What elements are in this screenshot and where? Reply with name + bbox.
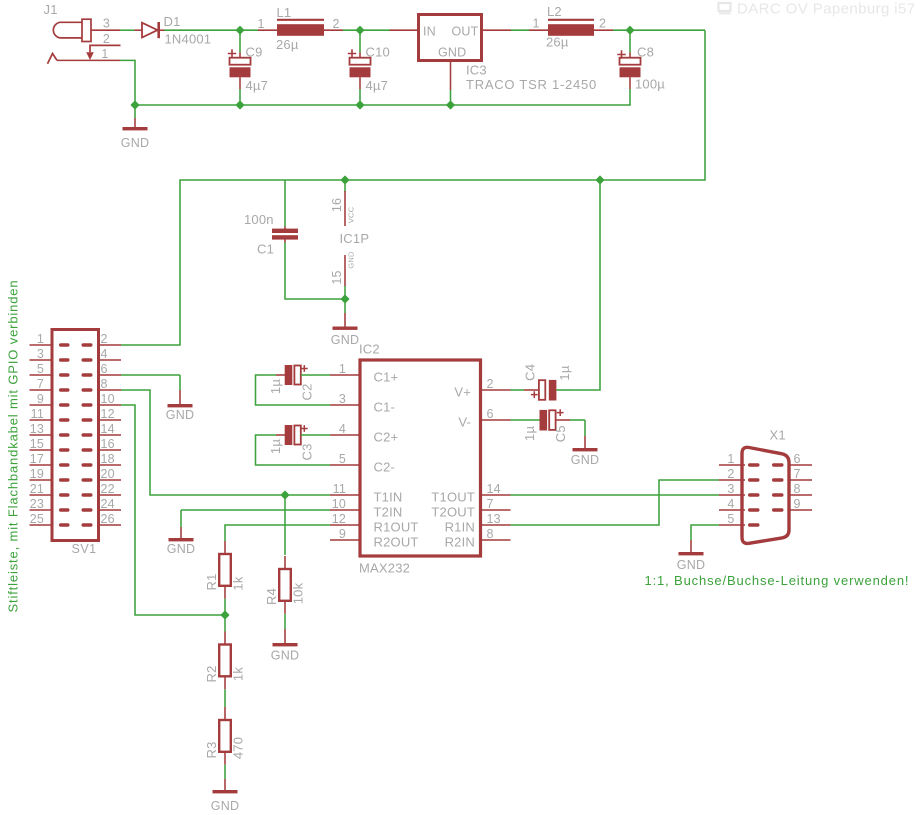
SV1 pin 23 — [30, 509, 53, 511]
IC2 pin 5 C2- — [330, 464, 360, 466]
svg-text:1k: 1k — [231, 667, 246, 681]
junction T1IN node at R4 branch — [280, 490, 289, 499]
SV1 pin 16 — [99, 449, 122, 451]
svg-text:C2: C2 — [300, 383, 315, 400]
svg-text:D1: D1 — [164, 14, 181, 29]
wire to ground symbol for C5 — [584, 420, 586, 436]
SV1 pin 13 — [30, 434, 53, 436]
svg-text:1: 1 — [533, 17, 540, 31]
wire SV1 pin10 to divider junction — [121, 405, 225, 615]
svg-text:C2+: C2+ — [374, 429, 399, 444]
svg-text:C2-: C2- — [374, 459, 396, 474]
svg-text:1:1, Buchse/Buchse-Leitung ver: 1:1, Buchse/Buchse-Leitung verwenden! — [645, 573, 910, 588]
connector X1 shell — [742, 447, 789, 543]
svg-text:10: 10 — [101, 392, 115, 406]
svg-text:2: 2 — [101, 332, 108, 346]
svg-text:4: 4 — [339, 422, 346, 436]
IC2 pin 12 R1OUT — [330, 524, 360, 526]
svg-text:25: 25 — [30, 512, 44, 526]
svg-text:GND: GND — [571, 453, 599, 467]
SV1 pin 20 — [99, 479, 122, 481]
capacitor C8 polarized — [620, 53, 641, 90]
SV1 pin 25 — [30, 524, 53, 526]
wire junction down to C8 — [629, 30, 631, 52]
svg-text:C9: C9 — [246, 45, 263, 60]
svg-text:IN: IN — [423, 25, 436, 39]
svg-text:19: 19 — [30, 467, 44, 481]
wire IC2 T1OUT to X1 pin3 — [511, 494, 720, 496]
IC2 pin 9 R2OUT — [330, 539, 360, 541]
ground symbol below R4 — [284, 629, 286, 643]
svg-text:18: 18 — [101, 452, 115, 466]
svg-text:5: 5 — [339, 452, 346, 466]
SV1 pin 18 — [99, 464, 122, 466]
wire SV1 pin6 to ground branch — [121, 374, 180, 376]
svg-text:1: 1 — [258, 17, 265, 31]
svg-text:8: 8 — [487, 527, 494, 541]
SV1 pin 15 — [30, 449, 53, 451]
wire 5V net from top corner to VCC rail and SV1 pin2 — [121, 30, 705, 345]
svg-text:1: 1 — [727, 452, 734, 466]
svg-text:GND: GND — [166, 408, 194, 422]
svg-text:T2IN: T2IN — [374, 504, 403, 519]
wire L1 pin2 to IC3 IN with C10 tap — [343, 29, 390, 31]
SV1 pin 21 — [30, 494, 53, 496]
IC3 pin OUT — [482, 29, 512, 31]
SV1 pin 6 — [99, 374, 122, 376]
svg-text:L1: L1 — [277, 5, 292, 20]
X1 pin 3 — [719, 494, 745, 496]
svg-text:R2IN: R2IN — [445, 534, 475, 549]
svg-text:X1: X1 — [770, 428, 786, 443]
svg-text:4: 4 — [101, 347, 108, 361]
svg-text:2: 2 — [103, 32, 110, 46]
wire IC2 R1IN to X1 pin2 — [511, 480, 720, 525]
wire junction to R2 top — [224, 615, 226, 632]
junction divider node R1 R2 — [220, 610, 229, 619]
capacitor C1 — [272, 227, 298, 243]
svg-text:1k: 1k — [231, 576, 246, 590]
wire SV1 pin8 to IC2 T1IN — [121, 390, 330, 495]
svg-text:T1IN: T1IN — [374, 489, 403, 504]
svg-text:100µ: 100µ — [635, 77, 665, 92]
SV1 pin 22 — [99, 494, 122, 496]
capacitor C4 polarized — [524, 380, 556, 401]
wire IC2 T2IN to ground — [181, 509, 330, 511]
IC2 pin 3 C1- — [330, 404, 360, 406]
capacitor C2 polarized — [276, 365, 301, 385]
C5 plus sign — [557, 409, 564, 416]
X1 pin 7 — [789, 479, 812, 481]
wire C9 to ground rail — [239, 89, 241, 105]
wire to ground symbol below input rail — [134, 105, 136, 118]
svg-text:IC3: IC3 — [466, 63, 487, 78]
svg-text:1: 1 — [37, 332, 44, 346]
power pins IC1P pin 15 GND — [344, 255, 346, 286]
SV1 pin 7 — [30, 389, 53, 391]
svg-text:1N4001: 1N4001 — [165, 32, 212, 47]
svg-text:GND: GND — [121, 136, 149, 150]
SV1 pin 11 — [30, 419, 53, 421]
svg-text:17: 17 — [30, 452, 44, 466]
connector J1 plug barrel — [53, 22, 83, 38]
wire to ground symbol for T2IN — [180, 510, 182, 527]
svg-text:100n: 100n — [244, 212, 274, 227]
wire junction down to C9 — [239, 30, 241, 52]
svg-text:26µ: 26µ — [276, 37, 299, 52]
junction at C8 top — [625, 26, 634, 35]
junction ground rail at C10 — [355, 100, 364, 109]
svg-text:C10: C10 — [366, 45, 390, 60]
svg-text:IC1P: IC1P — [340, 231, 370, 246]
svg-text:11: 11 — [333, 482, 346, 496]
junction ground rail at IC3 — [446, 100, 455, 109]
svg-text:22: 22 — [101, 482, 115, 496]
wire C5 to ground branch — [570, 419, 585, 421]
J1 pin 2 switched contact — [90, 45, 121, 52]
wire C4 branch down to C4 — [571, 180, 600, 390]
C9 plus sign — [228, 49, 236, 57]
ground symbol for SV1 pin 6 — [179, 390, 181, 404]
junction ground rail at C9 — [235, 100, 244, 109]
svg-text:R1: R1 — [204, 573, 219, 590]
wire IC2 V+ to C4 — [511, 389, 525, 391]
svg-text:7: 7 — [487, 497, 494, 511]
capacitor C3 polarized — [276, 425, 301, 445]
wire junction down to R4 — [284, 495, 286, 555]
svg-text:GND: GND — [211, 799, 239, 813]
capacitor C9 polarized — [230, 53, 251, 90]
wire IC3 GND to ground rail — [450, 90, 452, 105]
wire IC1P pin 15 to junction — [344, 286, 346, 299]
SV1 pin 12 — [99, 419, 122, 421]
IC2 pin 14 T1OUT — [481, 494, 511, 496]
svg-text:T2OUT: T2OUT — [431, 504, 475, 519]
svg-text:10k: 10k — [291, 582, 306, 604]
svg-text:1: 1 — [339, 362, 346, 376]
X1 pin 5 — [719, 524, 745, 526]
SV1 pin 4 — [99, 359, 122, 361]
svg-text:12: 12 — [332, 512, 346, 526]
wire to ground symbol below R3 — [224, 765, 226, 779]
wire to ground symbol for X1 pin5 — [690, 539, 692, 541]
svg-text:R4: R4 — [264, 588, 279, 605]
svg-text:C5: C5 — [553, 425, 568, 442]
svg-text:13: 13 — [487, 512, 501, 526]
C3 plus sign — [301, 425, 308, 432]
svg-text:3: 3 — [727, 482, 734, 496]
svg-text:21: 21 — [30, 482, 44, 496]
capacitor C10 polarized — [350, 53, 371, 90]
IC3 pin IN — [390, 29, 419, 31]
svg-text:14: 14 — [101, 422, 115, 436]
X1 pin 4 — [719, 509, 745, 511]
svg-text:SV1: SV1 — [72, 542, 97, 556]
svg-text:Stiftleiste, mit Flachbandkabe: Stiftleiste, mit Flachbandkabel mit GPIO… — [6, 280, 21, 613]
IC3 pin GND — [450, 61, 452, 91]
C10 plus sign — [348, 49, 356, 57]
svg-text:VCC: VCC — [347, 206, 356, 223]
svg-text:14: 14 — [487, 482, 501, 496]
svg-text:6: 6 — [487, 407, 494, 421]
wire IC3 OUT to L2 pin1 — [511, 29, 529, 31]
X1 pin 6 — [789, 464, 812, 466]
J1 pin 3 — [91, 29, 120, 31]
svg-text:V+: V+ — [454, 384, 471, 399]
svg-text:R2: R2 — [204, 665, 219, 682]
svg-text:C1: C1 — [257, 242, 274, 257]
X1 pin 2 — [719, 479, 745, 481]
svg-text:R3: R3 — [204, 741, 219, 758]
SV1 pin 1 — [30, 344, 53, 346]
wire junction down to C10 — [359, 30, 361, 52]
svg-text:R1IN: R1IN — [445, 519, 475, 534]
wire J1 pin3 to D1 anode — [120, 29, 135, 31]
svg-text:1: 1 — [101, 47, 108, 61]
svg-text:10: 10 — [332, 497, 346, 511]
svg-text:C3: C3 — [300, 443, 315, 460]
svg-text:3: 3 — [103, 17, 110, 31]
IC2 pin 11 T1IN — [330, 494, 360, 496]
wire J1 pin1 to ground rail — [120, 60, 135, 105]
resistor R2 — [219, 632, 231, 690]
junction at IC1P ground node — [340, 294, 349, 303]
voltage regulator IC3 box — [419, 15, 482, 61]
svg-text:2: 2 — [599, 17, 606, 31]
SV1 pin 10 — [99, 404, 122, 406]
svg-text:C8: C8 — [637, 45, 654, 60]
svg-text:V-: V- — [458, 414, 471, 429]
svg-text:DARC OV Papenburg i57: DARC OV Papenburg i57 — [737, 1, 916, 18]
svg-text:L2: L2 — [547, 4, 562, 19]
svg-text:7: 7 — [794, 467, 801, 481]
wire C4 to 5V branch — [556, 389, 571, 391]
wire to ground symbol below IC1P — [344, 299, 346, 313]
power pins IC1P pin 16 VCC — [344, 191, 346, 226]
svg-text:GND: GND — [331, 333, 359, 347]
SV1 pin 19 — [30, 479, 53, 481]
SV1 pin 2 — [99, 344, 122, 346]
svg-text:2: 2 — [727, 467, 734, 481]
wire VCC rail down to C1 — [284, 180, 286, 227]
svg-text:9: 9 — [794, 497, 801, 511]
svg-text:2: 2 — [487, 377, 494, 391]
svg-text:GND: GND — [271, 649, 299, 663]
ground symbol for T2IN — [180, 527, 182, 538]
svg-text:3: 3 — [339, 392, 346, 406]
J1 pin 1 — [57, 59, 120, 61]
IC2 pin 6 V- — [481, 419, 511, 421]
svg-text:1µ: 1µ — [268, 379, 283, 394]
svg-text:T1OUT: T1OUT — [431, 489, 475, 504]
svg-text:GND: GND — [438, 46, 466, 60]
IC2 pin 7 T2OUT — [481, 509, 511, 511]
svg-text:5: 5 — [37, 362, 44, 376]
svg-text:R1OUT: R1OUT — [374, 519, 419, 534]
ground symbol below IC1P — [344, 313, 346, 327]
IC2 pin 4 C2+ — [330, 434, 360, 436]
svg-text:15: 15 — [330, 270, 344, 284]
wire C3 loop to lower pin — [256, 435, 331, 465]
svg-text:4: 4 — [727, 497, 734, 511]
svg-text:26µ: 26µ — [546, 35, 569, 50]
svg-text:1µ: 1µ — [522, 426, 537, 441]
wire C2 loop to lower pin — [256, 375, 331, 405]
X1 pin 1 — [719, 464, 745, 466]
resistor R4 — [279, 556, 291, 614]
ground symbol below input rail — [134, 118, 136, 127]
junction at C9 top — [235, 26, 244, 35]
IC2 pin 10 T2IN — [330, 509, 360, 511]
svg-text:470: 470 — [231, 737, 246, 759]
svg-text:6: 6 — [101, 362, 108, 376]
wire VCC rail down to IC1P pin 16 — [344, 180, 346, 192]
C2 plus sign — [301, 365, 308, 372]
SV1 pin 8 — [99, 389, 122, 391]
svg-text:23: 23 — [30, 497, 44, 511]
svg-text:26: 26 — [101, 512, 115, 526]
svg-text:R2OUT: R2OUT — [374, 534, 419, 549]
svg-text:5: 5 — [727, 512, 734, 526]
resistor R3 — [219, 707, 231, 765]
wire D1 cathode to L1 pin1 with C9 tap — [165, 29, 259, 31]
svg-text:1µ: 1µ — [557, 365, 572, 380]
wire C2 to upper pin — [301, 374, 330, 376]
SV1 pin 24 — [99, 509, 122, 511]
wire C1 bottom to IC1P pin15 junction — [285, 243, 345, 300]
svg-text:20: 20 — [101, 467, 115, 481]
connector J1 sleeve — [82, 19, 91, 41]
ground symbol for C5 — [584, 436, 586, 448]
wire to ground symbol for SV1 pin 6 — [179, 375, 181, 390]
wire ground rail top section — [134, 104, 631, 106]
watermark logo icon — [719, 3, 731, 13]
svg-text:1µ: 1µ — [268, 439, 283, 454]
capacitor C5 polarized — [540, 410, 571, 431]
SV1 pin 9 — [30, 404, 53, 406]
svg-text:13: 13 — [30, 422, 44, 436]
svg-text:GND: GND — [677, 558, 705, 572]
SV1 pin 17 — [30, 464, 53, 466]
junction at C10 top — [355, 26, 364, 35]
svg-text:12: 12 — [101, 407, 115, 421]
svg-text:7: 7 — [37, 377, 44, 391]
wire R1 bottom to junction — [224, 599, 226, 615]
inductor L2 — [529, 20, 613, 36]
pin header SV1 box — [52, 330, 99, 541]
svg-text:4µ7: 4µ7 — [246, 78, 269, 93]
SV1 pin 26 — [99, 524, 122, 526]
SV1 pin 3 — [30, 359, 53, 361]
svg-text:11: 11 — [31, 407, 44, 421]
svg-text:6: 6 — [794, 452, 801, 466]
svg-text:16: 16 — [330, 198, 344, 212]
resistor R1 — [219, 541, 231, 599]
diode D1 — [135, 22, 165, 38]
X1 pin 8 — [789, 494, 812, 496]
IC2 pin 13 R1IN — [481, 524, 511, 526]
IC2 pin 1 C1+ — [330, 374, 360, 376]
SV1 pin 14 — [99, 434, 122, 436]
svg-text:9: 9 — [339, 527, 346, 541]
svg-text:C4: C4 — [523, 364, 538, 381]
wire C3 to upper pin — [301, 434, 330, 436]
SV1 pin 5 — [30, 374, 53, 376]
IC2 pin 2 V+ — [481, 389, 511, 391]
C8 plus sign — [617, 50, 625, 58]
junction VCC rail at IC1P — [340, 175, 349, 184]
wire C10 to ground rail — [359, 89, 361, 105]
svg-text:24: 24 — [101, 497, 115, 511]
svg-text:OUT: OUT — [452, 25, 479, 39]
IC IC2 MAX232 box — [360, 360, 481, 556]
wire R2 bottom to R3 top — [224, 689, 226, 707]
svg-text:8: 8 — [101, 377, 108, 391]
svg-text:4µ7: 4µ7 — [366, 78, 389, 93]
wire IC2 V- to C5 — [511, 419, 540, 421]
svg-text:16: 16 — [101, 437, 115, 451]
svg-text:8: 8 — [794, 482, 801, 496]
wire L2 pin2 to top right corner with C8 tap — [613, 29, 705, 31]
X1 pin 9 — [789, 509, 812, 511]
svg-text:GND: GND — [347, 251, 356, 269]
junction ground rail at x135 — [130, 100, 139, 109]
svg-text:3: 3 — [37, 347, 44, 361]
svg-text:9: 9 — [37, 392, 44, 406]
C4 plus sign — [531, 391, 538, 398]
svg-text:2: 2 — [333, 17, 340, 31]
wire IC2 R1OUT to R1 top — [225, 525, 330, 541]
IC2 pin 8 R2IN — [481, 539, 511, 541]
svg-text:IC2: IC2 — [359, 342, 380, 357]
svg-text:TRACO TSR 1-2450: TRACO TSR 1-2450 — [466, 77, 597, 92]
svg-text:J1: J1 — [44, 2, 58, 17]
svg-text:MAX232: MAX232 — [359, 561, 410, 576]
inductor L1 — [258, 20, 343, 36]
svg-text:C1+: C1+ — [374, 369, 399, 384]
ground symbol for X1 pin5 — [690, 540, 692, 552]
ground symbol below R3 — [224, 779, 226, 790]
svg-text:GND: GND — [167, 542, 195, 556]
svg-text:15: 15 — [30, 437, 44, 451]
wire X1 pin5 to ground — [691, 525, 719, 540]
junction VCC rail at C4 branch — [595, 175, 604, 184]
svg-text:C1-: C1- — [374, 399, 396, 414]
wire C8 to ground rail end — [629, 89, 631, 105]
wire to ground symbol below R4 — [284, 614, 286, 629]
